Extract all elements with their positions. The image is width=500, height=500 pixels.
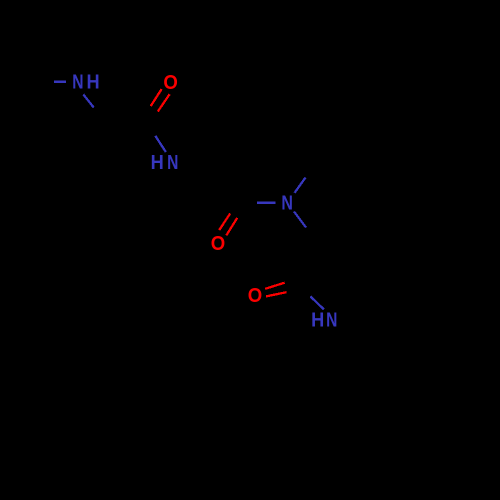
bond N3-ring C up-right (half near N, blue): [295, 178, 306, 193]
atom N2 label HN: [151, 151, 179, 174]
bond N3-ring C down-right (half near N, blue): [294, 212, 306, 228]
svg-text:O: O: [211, 234, 225, 256]
svg-text:N: N: [72, 71, 83, 93]
double bond C1=O1 line 1 (half near O, red): [151, 89, 162, 106]
double bond C3=O3 line 2 (half near O, red): [266, 292, 287, 296]
double bond C1=O1 line 2 (half near O, red): [158, 94, 170, 111]
svg-text:N: N: [167, 151, 178, 173]
atom N1 label NH: [72, 71, 99, 94]
atom N4 label HN: [311, 309, 337, 332]
double bond C2=O2 line 1 (half near O, red): [219, 213, 230, 230]
svg-text:H: H: [311, 310, 324, 332]
svg-text:N: N: [281, 192, 293, 214]
svg-text:H: H: [151, 152, 164, 174]
bond N1-CA (half near N, blue): [83, 94, 93, 107]
svg-text:O: O: [163, 72, 177, 94]
svg-text:N: N: [326, 309, 337, 331]
bond C2-N3 (half near N, blue, horizontal): [257, 201, 275, 203]
double bond C3=O3 line 1 (half near O, red): [265, 283, 284, 289]
svg-text:O: O: [248, 285, 262, 307]
bond CH3-N1 (half near N, blue): [54, 80, 66, 83]
double bond C2=O2 line 2 (half near O, red): [226, 218, 237, 236]
bond C3-N4 (half near N, blue): [311, 297, 324, 310]
bond C1-N2 (half near N, blue): [155, 136, 166, 152]
svg-text:H: H: [86, 72, 99, 94]
